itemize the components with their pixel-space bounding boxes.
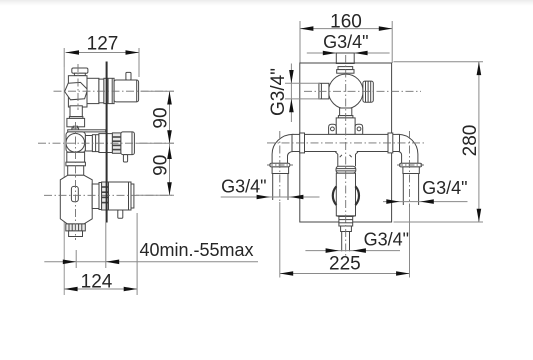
dimension 127 <box>64 34 139 78</box>
right mounting ear <box>355 124 363 134</box>
svg-text:G3/4": G3/4" <box>422 178 467 198</box>
middle valve: top bar to wall <box>68 130 106 132</box>
svg-text:G3/4": G3/4" <box>268 68 289 116</box>
chamfer to outlet nut <box>336 215 355 218</box>
svg-text:40min.-55max: 40min.-55max <box>140 240 254 260</box>
bottom handle: ring <box>99 183 102 210</box>
pipe centerline <box>267 142 424 144</box>
dimension 40min.-55max <box>44 240 258 268</box>
right flange centerline mark <box>397 164 424 166</box>
top handle section 3 <box>104 78 114 103</box>
left extension line (shared 127 / 124) <box>63 67 65 295</box>
neck inner bore ticks <box>340 155 342 157</box>
top handle ring <box>99 79 104 103</box>
svg-text:90: 90 <box>150 107 171 128</box>
vertical centerline of valve stack <box>77 64 79 110</box>
cartridge body <box>336 173 355 216</box>
down pipe below elbow <box>67 152 85 162</box>
middle handle: bottom stub <box>123 155 127 162</box>
top valve: pipe step <box>69 117 83 119</box>
left inlet thread lines <box>272 174 274 201</box>
top supply pipe <box>336 53 354 64</box>
dimension 225 <box>280 229 410 278</box>
horizontal pipe with elbows <box>270 133 422 174</box>
svg-text:90: 90 <box>150 155 171 176</box>
left inlet centerline <box>279 131 281 202</box>
wall plate <box>300 63 392 222</box>
right union flange <box>399 163 421 167</box>
svg-text:G3/4": G3/4" <box>221 176 266 196</box>
top handle section 1 <box>87 78 99 103</box>
beaded coupling <box>336 166 356 173</box>
dimension 124 <box>64 213 137 295</box>
dimension 160 <box>300 12 392 64</box>
straight pipe <box>292 134 400 151</box>
spout outlet pipe <box>69 231 83 237</box>
svg-text:225: 225 <box>329 254 361 275</box>
outlet stub <box>341 226 352 232</box>
bottom handle: neck <box>92 184 99 209</box>
top valve: hex nut <box>65 82 88 99</box>
middle valve: elbow housing <box>66 132 85 152</box>
svg-text:G3/4": G3/4" <box>323 32 368 52</box>
pipe flange <box>66 162 86 166</box>
dimension 90 upper <box>150 91 172 195</box>
top valve: body <box>68 76 87 107</box>
bottom handle: end cap <box>131 184 134 208</box>
dimension 90 lower <box>150 146 172 195</box>
centerline bottom handle <box>44 194 174 196</box>
svg-text:124: 124 <box>81 272 113 293</box>
middle valve: ball elbow circle <box>66 134 85 153</box>
dimension G3/4 mid-left <box>221 176 320 199</box>
outlet pipe lines <box>341 232 343 252</box>
middle handle: cylinder <box>121 132 134 155</box>
right inlet thread lines <box>402 174 404 206</box>
solid extension segments to 90-dim <box>141 90 174 92</box>
thermostat head circle <box>329 74 364 109</box>
svg-text:127: 127 <box>87 34 119 55</box>
bottom handle: cylinder <box>109 182 132 210</box>
top cap fitting <box>338 67 353 70</box>
vertical centerline main <box>345 55 347 256</box>
left port <box>319 83 329 99</box>
wall line (mounting plane, side view) <box>106 62 108 223</box>
left union flange <box>270 163 290 167</box>
bulge left <box>333 186 337 205</box>
middle valve: union nut <box>85 136 92 152</box>
spout outlet knurled nut <box>66 224 86 231</box>
top valve: cap <box>72 68 88 73</box>
wall line extension down (for 40-55 dim) <box>105 223 107 269</box>
pipe to spout body <box>68 166 84 176</box>
right union body <box>403 167 419 174</box>
upper body <box>336 118 355 134</box>
neck below tee: left edge <box>335 152 337 166</box>
svg-text:G3/4": G3/4" <box>364 230 409 250</box>
left mounting ear <box>329 124 337 134</box>
outlet nut striped <box>339 217 353 227</box>
middle handle: knurled ring <box>112 133 121 153</box>
dimension 280 <box>394 62 484 222</box>
centerline middle handle <box>38 142 174 144</box>
spout body <box>60 175 92 224</box>
left flange centerline mark <box>267 164 293 166</box>
middle valve: packing stem <box>73 126 77 129</box>
left union body <box>272 167 289 174</box>
dimension G3/4 top <box>307 32 390 56</box>
middle valve: packing cap <box>72 128 79 132</box>
dimension G3/4 bottom <box>305 230 409 253</box>
middle handle: ring at wall <box>99 134 113 153</box>
centerline top handle <box>54 90 175 92</box>
dimension G3/4 left (vertical, side port) <box>268 64 320 123</box>
right knob (knurled) <box>363 81 373 102</box>
neck below tee: right edge <box>356 152 358 166</box>
top handle main cylinder <box>114 80 139 102</box>
right inlet centerline <box>409 131 411 207</box>
svg-text:160: 160 <box>330 12 362 33</box>
cartridge column <box>333 151 359 232</box>
bottom handle: bottom stub <box>118 210 123 218</box>
spout body slot <box>71 186 78 201</box>
svg-text:280: 280 <box>460 125 481 157</box>
right pipe collar <box>388 133 393 153</box>
right elbow outline <box>398 134 418 163</box>
neck below tee: bore break patch <box>337 151 357 153</box>
left elbow outline <box>272 134 293 163</box>
dimension G3/4 mid-right <box>383 178 468 204</box>
top handle stub <box>126 72 131 80</box>
top valve: down pipe <box>70 106 82 117</box>
horizontal centerline through head <box>304 90 421 92</box>
bulge right <box>355 186 359 205</box>
bottom handle: knurled ring <box>102 182 109 210</box>
neck below head <box>340 108 352 116</box>
left pipe collar <box>300 133 305 153</box>
top valve: union box above elbow <box>67 118 85 126</box>
